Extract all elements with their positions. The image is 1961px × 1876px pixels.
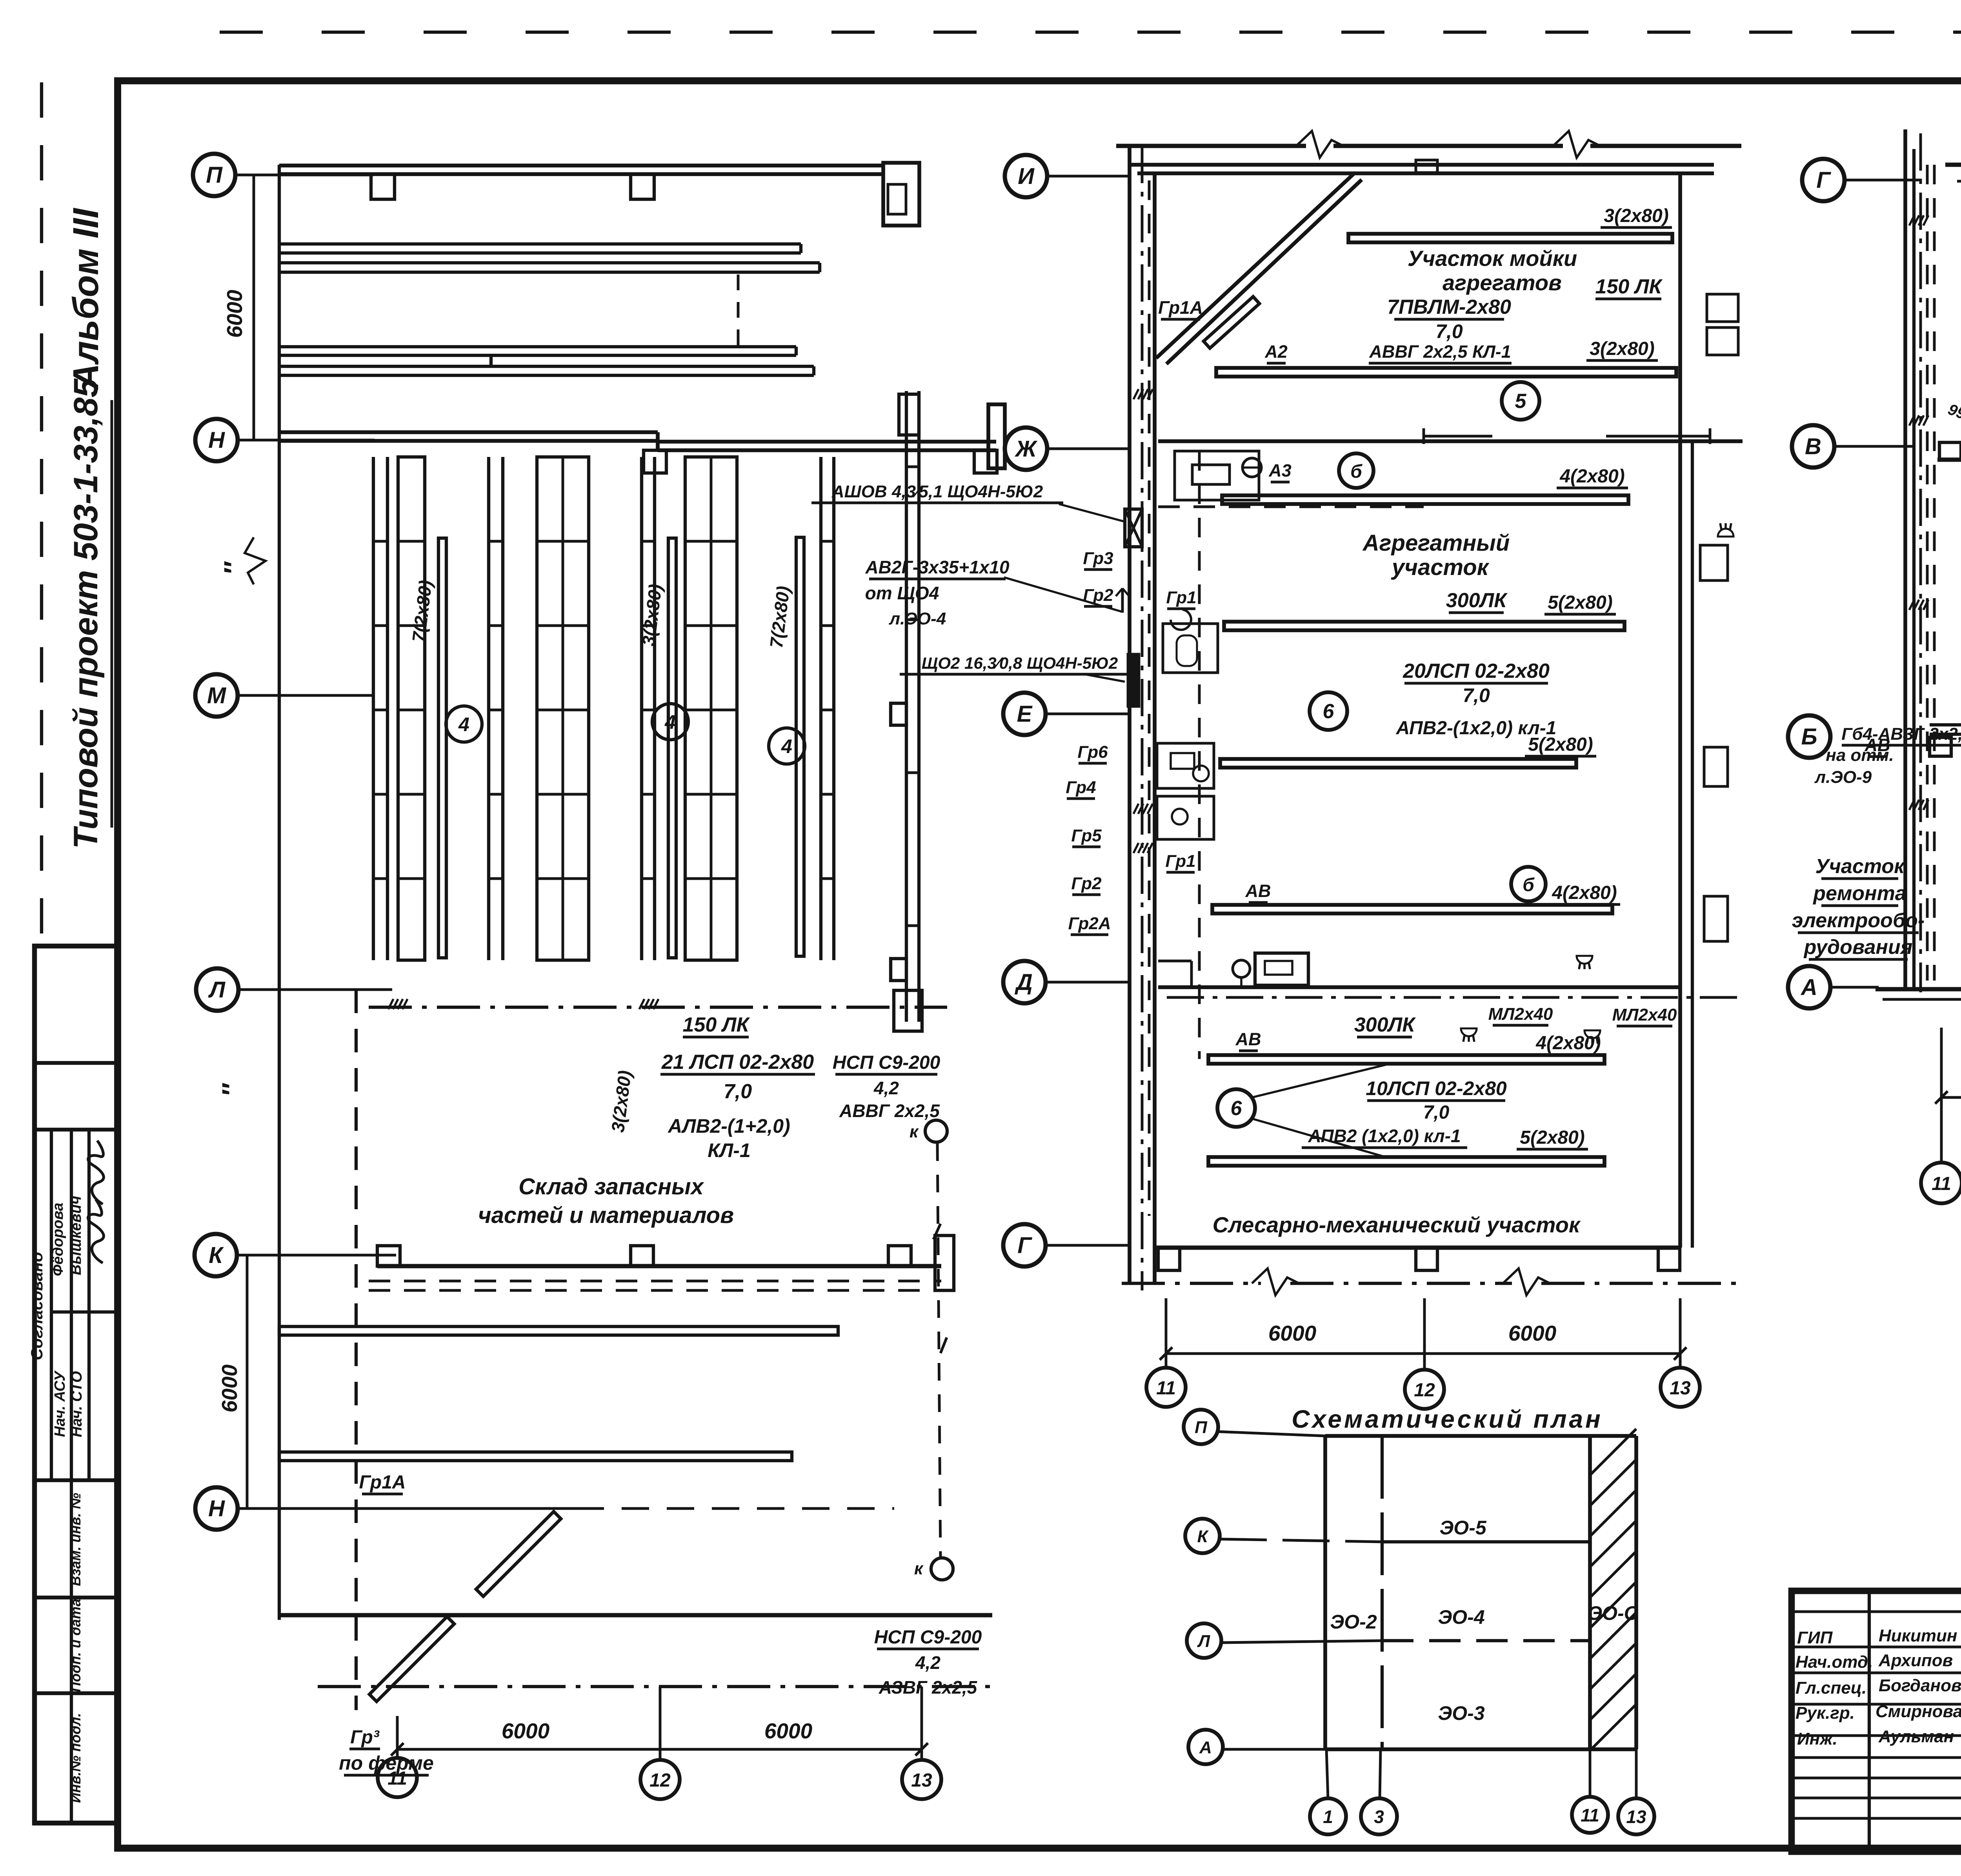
- hatch left wall y2060: [1133, 804, 1139, 814]
- luminaire row agg 4: [1212, 905, 1612, 913]
- approval column inner vertical 1: [50, 1130, 53, 1480]
- svg-text:6: 6: [1323, 700, 1335, 723]
- break zigzag on left wall: [245, 537, 266, 584]
- wall D corner notch: [1158, 960, 1192, 963]
- left outer wall vertical: [278, 165, 281, 745]
- svg-text:Аульман: Аульман: [1878, 1727, 1954, 1746]
- wall A bottom: [1876, 987, 1961, 992]
- schem building left wall: [1323, 1436, 1327, 1749]
- washroom box: [1175, 451, 1259, 500]
- svg-text:АПВ2 (1х2,0) кл-1: АПВ2 (1х2,0) кл-1: [1308, 1126, 1461, 1146]
- luminaire row agg 2: [1224, 622, 1624, 630]
- svg-text:ЭО-5: ЭО-5: [1439, 1517, 1486, 1539]
- title vertical col 1: [1868, 1591, 1871, 1852]
- svg-text:Вышкевич: Вышкевич: [68, 1196, 84, 1275]
- schem circle 1: [1310, 1798, 1346, 1834]
- svg-text:Ж: Ж: [1014, 436, 1038, 462]
- schem circle 11: [1572, 1797, 1608, 1833]
- rack group mark circle 4 c: [769, 728, 805, 764]
- right fixture b: [1704, 747, 1728, 786]
- svg-text:″: ″: [218, 561, 249, 575]
- middle left wall outer: [1128, 146, 1131, 1283]
- axis K schem leader: [1220, 1539, 1382, 1542]
- svg-text:участок: участок: [1391, 555, 1490, 580]
- svg-text:4: 4: [781, 735, 792, 757]
- truss diagonal bar 1: [369, 1617, 454, 1701]
- svg-text:агрегатов: агрегатов: [1443, 270, 1562, 295]
- schem hatch strokes: [1590, 1429, 1636, 1475]
- svg-text:Нач.отд.: Нач.отд.: [1795, 1652, 1873, 1672]
- pendant lamp drop line: [937, 1143, 940, 1559]
- approval column outer box: [35, 946, 117, 1823]
- approval column divider y3774: [35, 1478, 117, 1482]
- svg-text:Гр³: Гр³: [350, 1727, 380, 1748]
- svg-text:Фёдорова: Фёдорова: [50, 1203, 66, 1276]
- group mark circle 5: [1502, 382, 1539, 420]
- dashed room boundary: [1158, 506, 1424, 508]
- middle left wall axis dashdot: [1141, 146, 1144, 1290]
- schem circle 3: [1361, 1798, 1397, 1834]
- axis circle I: [1005, 155, 1047, 197]
- approval column line 2: [35, 1128, 117, 1132]
- svg-text:ЭО-3: ЭО-3: [1438, 1702, 1484, 1724]
- svg-text:А: А: [1800, 975, 1817, 1000]
- svg-text:М: М: [207, 683, 227, 708]
- washstand room: [1163, 624, 1218, 673]
- approval column divider y4073: [35, 1596, 117, 1599]
- wall N upper shelf: [279, 430, 658, 434]
- svg-text:л.ЭО-4: л.ЭО-4: [889, 609, 946, 628]
- wall V line: [1937, 458, 1961, 462]
- right fixtures urinals: [1707, 294, 1738, 322]
- svg-text:Д: Д: [1014, 970, 1033, 995]
- right plan left wall dashed a: [1926, 165, 1929, 981]
- dashed drop between rack rows: [737, 275, 740, 345]
- svg-text:И: И: [1018, 164, 1035, 189]
- group mark circle 6b: [1217, 1089, 1255, 1127]
- svg-text:Смирнова: Смирнова: [1876, 1702, 1961, 1721]
- svg-text:Слесарно-механический участок: Слесарно-механический участок: [1213, 1212, 1581, 1237]
- svg-text:Взам. инв. №: Взам. инв. №: [67, 1493, 84, 1586]
- luminaire row sles 2: [1208, 1157, 1604, 1166]
- svg-text:ЭО-С: ЭО-С: [1588, 1602, 1638, 1624]
- axis circle M: [195, 674, 238, 717]
- axis circle K: [195, 1234, 237, 1276]
- svg-text:ремонта: ремонта: [1812, 882, 1906, 905]
- svg-text:рудования: рудования: [1803, 936, 1913, 959]
- tab wall B: [1930, 737, 1951, 756]
- wall P top line b: [279, 172, 883, 176]
- svg-text:11: 11: [1581, 1805, 1599, 1825]
- axis circle 11 mid: [1146, 1368, 1186, 1407]
- axis circle B right: [1788, 715, 1830, 758]
- axis P schem leader: [1218, 1432, 1325, 1436]
- right wall tab low: [891, 959, 906, 981]
- column tab on wall P 1: [371, 174, 395, 199]
- storage rack pair 1: [372, 457, 375, 960]
- svg-text:ЭО-2: ЭО-2: [1330, 1611, 1377, 1633]
- left bottom dim line: [397, 1748, 922, 1751]
- axis 11 right stub: [1940, 1028, 1943, 1162]
- schem divider L row: [1382, 1639, 1590, 1642]
- wall K line: [377, 1264, 941, 1268]
- middle right wall outer: [1691, 441, 1694, 1248]
- svg-text:В: В: [1805, 434, 1821, 459]
- svg-text:10ЛСП 02-2х80: 10ЛСП 02-2х80: [1366, 1077, 1507, 1099]
- schem axis 11 stub: [1589, 1749, 1592, 1796]
- svg-text:Архипов: Архипов: [1878, 1651, 1953, 1670]
- svg-text:4: 4: [664, 711, 676, 733]
- right top wall inner dashed: [1957, 180, 1961, 183]
- svg-text:АВ: АВ: [1235, 1029, 1261, 1049]
- axis 11 stub line: [396, 1716, 399, 1758]
- vertical luminaire row 7(2x80) b: [796, 537, 804, 956]
- bottom break dashdot line: [1122, 1282, 1261, 1285]
- group mark circle b1: [1339, 453, 1373, 488]
- svg-text:7ПВЛМ-2х80: 7ПВЛМ-2х80: [1387, 296, 1511, 318]
- left wall lower segment: [278, 745, 281, 1620]
- svg-text:7,0: 7,0: [1423, 1102, 1450, 1123]
- svg-text:6000: 6000: [217, 1364, 242, 1412]
- axis circle K schem: [1185, 1519, 1220, 1553]
- svg-text:300ЛК: 300ЛК: [1446, 589, 1508, 612]
- luminaire row wash 1: [1348, 234, 1672, 242]
- svg-text:П: П: [206, 162, 223, 188]
- svg-text:4(2х80): 4(2х80): [1559, 466, 1624, 487]
- svg-text:А3: А3: [1268, 460, 1292, 480]
- wall D dashdot: [1167, 996, 1743, 999]
- column tab wall K 2: [631, 1246, 653, 1266]
- svg-text:б: б: [1523, 875, 1535, 895]
- luminaire row wash 2: [1216, 368, 1676, 377]
- svg-text:6000: 6000: [764, 1719, 813, 1743]
- svg-text:Никитин: Никитин: [1879, 1626, 1957, 1645]
- svg-text:6000: 6000: [1268, 1321, 1317, 1345]
- hatch marks wall L 1: [388, 999, 393, 1009]
- approval signature 2 (rotated): [88, 1141, 104, 1204]
- wall P top line a: [279, 164, 883, 167]
- leader to X panel: [1059, 504, 1125, 522]
- svg-text:Гр1А: Гр1А: [1158, 297, 1203, 318]
- column tab on wall N 1: [644, 450, 666, 473]
- wc room upper: [1157, 743, 1214, 788]
- diagonal wall corner b: [1166, 180, 1362, 364]
- storage rack row A lines: [279, 242, 801, 246]
- axis M leader line: [238, 694, 373, 697]
- svg-text:6: 6: [1231, 1097, 1242, 1120]
- column tab on wall N 2: [974, 450, 997, 473]
- tab wall V 1: [1939, 442, 1961, 460]
- hatch left wall y2160: [1133, 843, 1139, 853]
- right plan left wall a: [1903, 129, 1907, 988]
- washroom sink: [1192, 465, 1230, 484]
- right fixture c: [1704, 896, 1728, 941]
- rack group mark circle 4 a: [446, 706, 482, 742]
- right plan left wall dashed b: [1933, 165, 1936, 981]
- washroom lamp: [1242, 458, 1261, 477]
- svg-text:4,2: 4,2: [915, 1652, 940, 1673]
- svg-text:А: А: [1199, 1738, 1212, 1757]
- svg-text:П: П: [1195, 1418, 1208, 1437]
- wall A lower line: [1883, 998, 1961, 1001]
- axis circle 12 mid: [1405, 1370, 1444, 1409]
- feeder dashed vertical middle: [1198, 451, 1201, 1059]
- svg-text:5: 5: [1515, 390, 1527, 413]
- axis Zh leader line: [1047, 448, 1130, 450]
- axis I leader line: [1047, 175, 1130, 178]
- svg-text:150 ЛК: 150 ЛК: [683, 1014, 750, 1036]
- axis circle L schem: [1187, 1623, 1221, 1658]
- wall K dashed double b: [369, 1289, 941, 1292]
- schem building top: [1325, 1434, 1636, 1438]
- axis L leader line: [238, 988, 392, 991]
- svg-text:Л: Л: [1197, 1632, 1210, 1651]
- rack group mark circle 4 b: [652, 704, 688, 740]
- right wall of storage a: [905, 391, 908, 1022]
- right wall of storage b: [917, 391, 920, 1022]
- svg-text:Гр5: Гр5: [1071, 826, 1102, 845]
- svg-text:электрообо-: электрообо-: [1792, 909, 1925, 932]
- truss diagonal bar 2: [476, 1512, 561, 1596]
- approval column top divider: [35, 1061, 117, 1065]
- column tab wall K 1: [377, 1246, 400, 1266]
- right sconce: [1577, 956, 1592, 964]
- wall N lower shelf: [658, 440, 996, 444]
- right wall tab mid: [891, 703, 906, 725]
- storage rack pair 3: [640, 457, 643, 960]
- schem axis 13 stub: [1635, 1749, 1638, 1798]
- group mark circle 6a: [1310, 692, 1347, 730]
- svg-text:21 ЛСП 02-2х80: 21 ЛСП 02-2х80: [661, 1051, 814, 1074]
- left margin dashed line: [40, 82, 43, 946]
- page top edge dashed line: [220, 31, 1961, 34]
- pilaster right of wall N: [988, 404, 1005, 468]
- svg-text:Рук.гр.: Рук.гр.: [1795, 1703, 1855, 1723]
- svg-text:300ЛК: 300ЛК: [1354, 1014, 1416, 1036]
- svg-text:150 ЛК: 150 ЛК: [1595, 275, 1663, 298]
- axis A leader: [1830, 986, 1879, 989]
- axis circle 12 left: [640, 1760, 680, 1799]
- desk lamp: [1233, 960, 1250, 977]
- middle bottom dim line: [1166, 1352, 1680, 1355]
- svg-text:АЛВ2-(1+2,0): АЛВ2-(1+2,0): [667, 1115, 790, 1137]
- X panel box: [1125, 509, 1142, 547]
- svg-text:Агрегатный: Агрегатный: [1362, 530, 1510, 556]
- hatch right wall y2050: [1909, 800, 1914, 810]
- svg-text:Гр2: Гр2: [1071, 874, 1102, 893]
- wall Zh line: [1158, 439, 1743, 443]
- axis circle 13 mid: [1661, 1368, 1700, 1407]
- svg-text:ГИП: ГИП: [1797, 1628, 1833, 1647]
- column tab wall K 3: [888, 1246, 911, 1266]
- storage wide rack 2: [537, 457, 589, 960]
- axis circle L: [196, 968, 238, 1011]
- svg-text:Гр2А: Гр2А: [1068, 914, 1111, 933]
- right plan left wall dashdot: [1919, 133, 1922, 992]
- schem divider K row: [1382, 1540, 1590, 1543]
- svg-text:6000: 6000: [502, 1719, 550, 1743]
- leader 6b down: [1252, 1119, 1388, 1158]
- storage rack pair 4: [819, 457, 822, 960]
- small arrow symbol: [1121, 588, 1124, 613]
- svg-text:Склад запасных: Склад запасных: [518, 1174, 704, 1199]
- svg-text:АВВГ 2х2,5: АВВГ 2х2,5: [839, 1101, 940, 1121]
- svg-text:13: 13: [1626, 1807, 1646, 1827]
- svg-text:ЭО-4: ЭО-4: [1438, 1606, 1484, 1628]
- right bottom dim line: [1941, 1096, 1961, 1099]
- svg-text:4(2х80): 4(2х80): [1535, 1033, 1601, 1054]
- svg-text:7,0: 7,0: [1463, 684, 1490, 706]
- right top wall: [1945, 163, 1961, 167]
- axis circle V: [1792, 425, 1834, 468]
- axis 12 stub line: [659, 1687, 662, 1760]
- svg-text:4: 4: [458, 713, 469, 735]
- luminaire row below K 1: [279, 1326, 838, 1335]
- wall G line: [1156, 1246, 1680, 1250]
- svg-text:частей и материалов: частей и материалов: [478, 1203, 734, 1228]
- vertical luminaire row 7(2x80) a: [438, 538, 446, 958]
- approval column mid divider: [51, 1310, 117, 1314]
- svg-text:11: 11: [387, 1768, 407, 1789]
- schem axis 3 stub: [1380, 1749, 1381, 1798]
- svg-text:″: ″: [216, 1083, 247, 1097]
- axis E leader line: [1046, 713, 1130, 715]
- luminaire row sles 1: [1208, 1055, 1604, 1064]
- svg-text:АШОВ 4,3⁄5,1 ЩО4Н-5Ю2: АШОВ 4,3⁄5,1 ЩО4Н-5Ю2: [831, 482, 1043, 501]
- storage wide rack 1: [398, 457, 425, 960]
- svg-text:3: 3: [1374, 1807, 1384, 1827]
- dim mark 6000 lower left: [246, 1255, 249, 1508]
- axis N leader line: [238, 439, 375, 442]
- svg-text:АВВГ 2х2,5 КЛ-1: АВВГ 2х2,5 КЛ-1: [1369, 342, 1511, 362]
- right plan left wall b: [1912, 149, 1916, 988]
- telephone desk: [1255, 953, 1308, 985]
- svg-text:ЩО2 16,3⁄0,8 ЩО4Н-5Ю2: ЩО2 16,3⁄0,8 ЩО4Н-5Ю2: [922, 654, 1118, 672]
- axis 13 mid stub: [1679, 1298, 1682, 1368]
- svg-text:12: 12: [1414, 1380, 1435, 1401]
- axis P leader line: [235, 174, 373, 177]
- middle top broken wall: [1116, 144, 1306, 148]
- feeder dashed vertical Gr1A: [355, 990, 358, 1710]
- svg-text:Гр1А: Гр1А: [359, 1472, 406, 1493]
- storage rack pair 2: [487, 457, 490, 960]
- approval column inner vertical 3: [87, 1130, 91, 1480]
- svg-text:К: К: [209, 1243, 224, 1268]
- svg-text:АВ: АВ: [1245, 881, 1271, 901]
- axis D leader line: [1046, 981, 1130, 984]
- wall I room top b: [1137, 171, 1714, 175]
- wall sconce ML 2: [1584, 1030, 1600, 1038]
- door opening ticks: [1424, 435, 1492, 438]
- svg-text:13: 13: [1670, 1378, 1691, 1399]
- svg-text:Участок: Участок: [1815, 855, 1905, 878]
- column tab wall G 1: [1158, 1248, 1180, 1270]
- storage rack row B lines: [279, 345, 796, 348]
- axis G leader line: [1046, 1244, 1130, 1247]
- svg-text:7,0: 7,0: [1435, 320, 1463, 342]
- svg-text:Е: Е: [1017, 701, 1033, 727]
- dim line P-N 6000: [253, 175, 255, 440]
- title left rows: [1792, 1610, 1961, 1613]
- svg-text:Гр6: Гр6: [1077, 742, 1108, 762]
- pendant lamp K lower: [931, 1558, 953, 1580]
- axis circle G middle: [1003, 1224, 1046, 1266]
- svg-text:3(2х80): 3(2х80): [1590, 338, 1654, 359]
- schem circle 13: [1618, 1798, 1654, 1834]
- vertical luminaire row 3(2x80): [668, 538, 676, 958]
- svg-text:Участок мойки: Участок мойки: [1408, 246, 1577, 271]
- svg-text:Богданов: Богданов: [1879, 1676, 1961, 1695]
- svg-text:К: К: [1197, 1527, 1209, 1546]
- svg-text:Альбом III: Альбом III: [66, 207, 106, 390]
- axis circle Zh: [1005, 428, 1047, 470]
- svg-text:1: 1: [1323, 1807, 1333, 1827]
- right fixture sink: [1700, 545, 1728, 580]
- leader to panel 2: [1004, 577, 1122, 612]
- axis circle G right: [1802, 159, 1845, 201]
- schem building bottom: [1325, 1747, 1636, 1751]
- axis circle A right: [1788, 966, 1830, 1008]
- svg-text:Гр4: Гр4: [1066, 778, 1096, 797]
- hatch right wall y1540: [1909, 600, 1914, 610]
- svg-text:Согласовано: Согласовано: [27, 1252, 46, 1360]
- svg-text:6000: 6000: [222, 289, 247, 338]
- svg-text:Б: Б: [1801, 724, 1817, 750]
- svg-text:Подп. и дата: Подп. и дата: [67, 1599, 84, 1692]
- svg-text:Схематический план: Схематический план: [1292, 1405, 1603, 1433]
- svg-text:Инж.: Инж.: [1797, 1729, 1837, 1749]
- svg-text:4,2: 4,2: [873, 1078, 899, 1098]
- diagonal luminaire bar: [1204, 297, 1259, 348]
- axis 13 stub line: [920, 1687, 923, 1760]
- svg-text:11: 11: [1932, 1174, 1951, 1194]
- axis circle A schem: [1188, 1730, 1223, 1764]
- svg-text:3(2х80): 3(2х80): [1604, 206, 1668, 226]
- svg-text:Нач. АСУ: Нач. АСУ: [52, 1370, 68, 1437]
- svg-text:Типовой проект 503-1-33,85: Типовой проект 503-1-33,85: [67, 378, 105, 849]
- axis circle 11 left: [378, 1758, 417, 1797]
- axis circle 13 left: [902, 1760, 941, 1799]
- svg-text:Гр1: Гр1: [1166, 588, 1196, 607]
- svg-text:6000: 6000: [1508, 1321, 1557, 1345]
- group mark circle b2: [1511, 867, 1546, 901]
- axis 12 mid stub: [1423, 1298, 1426, 1370]
- middle right wall: [1678, 173, 1682, 1248]
- svg-text:от ЩО4: от ЩО4: [865, 583, 939, 603]
- axis L schem leader: [1221, 1641, 1382, 1643]
- svg-text:НСП С9-200: НСП С9-200: [874, 1627, 982, 1648]
- lower hall dashdot wall: [318, 1685, 998, 1688]
- axis circle P: [193, 154, 235, 196]
- main title block box: [1792, 1591, 1961, 1852]
- svg-text:Г: Г: [1816, 167, 1831, 193]
- svg-text:7,0: 7,0: [724, 1080, 752, 1103]
- tab on wall I: [1416, 160, 1437, 173]
- axis G right leader: [1845, 179, 1922, 182]
- svg-text:АВ: АВ: [1865, 735, 1890, 755]
- axis V leader: [1834, 445, 1914, 448]
- filled panel ShchO2: [1128, 654, 1139, 706]
- axis K leader line: [237, 1254, 396, 1257]
- wall L dash-dot line: [369, 1006, 947, 1009]
- svg-text:4(2х80): 4(2х80): [1552, 883, 1617, 903]
- middle left wall conduit dashed: [1148, 180, 1151, 1216]
- approval column divider y4317: [35, 1691, 117, 1695]
- axis circle N: [195, 419, 238, 461]
- axis circle D: [1003, 961, 1046, 1003]
- wall B lines: [1930, 723, 1961, 726]
- storage wide rack 3: [685, 457, 737, 960]
